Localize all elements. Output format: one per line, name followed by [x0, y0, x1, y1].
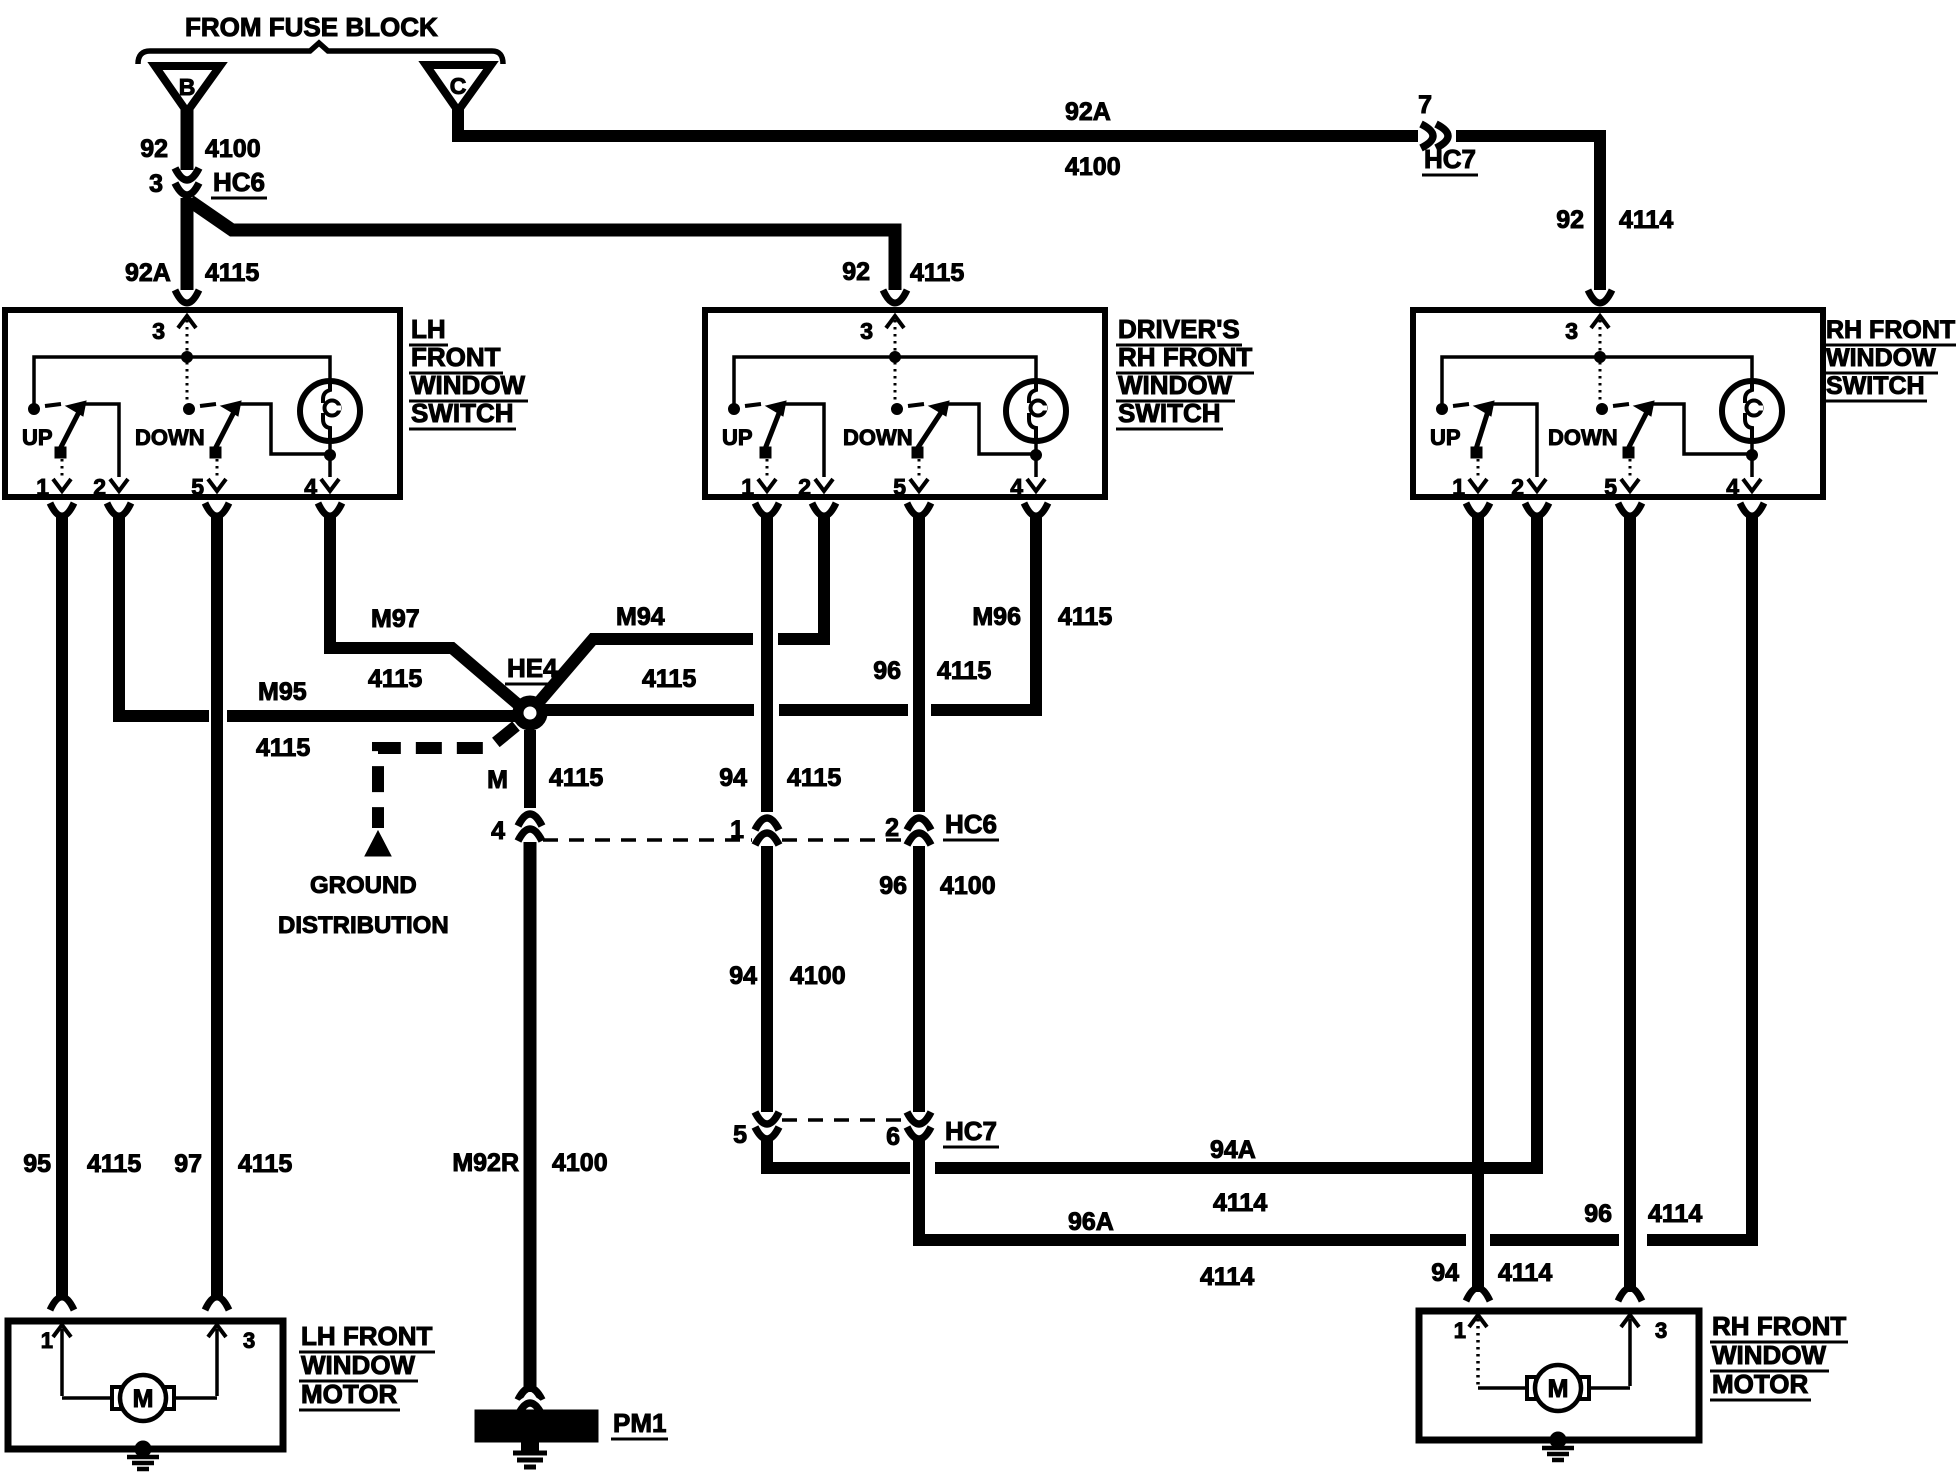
svg-text:M94: M94	[616, 603, 665, 631]
svg-text:GROUND: GROUND	[310, 872, 417, 899]
LH front window switch DOWN switch	[186, 362, 189, 402]
svg-text:1: 1	[36, 474, 49, 500]
wire ground distribution dashed	[378, 726, 516, 828]
svg-text:1: 1	[1452, 474, 1465, 500]
svg-text:4100: 4100	[205, 135, 261, 163]
svg-text:4: 4	[491, 817, 505, 845]
svg-text:3: 3	[243, 1328, 255, 1353]
wire end fork RH pin3	[1588, 290, 1612, 303]
wire M92R 4100 to PM1	[524, 842, 537, 1392]
connector HE4-4	[518, 814, 542, 826]
drivers RH front window switch lamp	[1006, 381, 1066, 441]
svg-text:M97: M97	[371, 605, 420, 633]
drivers RH front window switch pin 5 stub	[907, 503, 931, 516]
wire 97 4115 LH pin5 to motor	[211, 528, 223, 1300]
svg-text:DOWN: DOWN	[1548, 425, 1618, 450]
svg-text:LH: LH	[411, 314, 446, 344]
svg-text:94: 94	[729, 962, 757, 990]
LH front window switch UP switch	[29, 404, 40, 415]
LH front window switch wire top rail	[34, 357, 330, 404]
svg-text:MOTOR: MOTOR	[301, 1379, 398, 1409]
svg-text:1: 1	[741, 474, 754, 500]
drivers RH front window switch wire top rail	[734, 357, 1036, 404]
wire M 4115 ground feed	[524, 730, 536, 808]
RH front window switch wire DOWN to lamp	[1651, 404, 1747, 454]
svg-text:5: 5	[893, 474, 906, 500]
RH front window switch node pin3 junction	[1595, 352, 1606, 363]
wire M95 4115	[119, 528, 521, 716]
svg-text:92: 92	[1556, 206, 1584, 234]
LH front window switch node pin3 junction	[182, 352, 193, 363]
svg-text:2: 2	[93, 474, 106, 500]
drivers RH front window switch pin 2 stub	[812, 503, 836, 516]
wire M97 4115	[330, 528, 521, 707]
wire end fork RH motor pin3	[1618, 1288, 1642, 1301]
svg-text:4115: 4115	[1058, 603, 1112, 631]
wire 96A 4114	[919, 528, 1752, 1240]
wire end fork LH motor pin1	[50, 1297, 74, 1310]
svg-text:2: 2	[798, 474, 811, 500]
wire 94 4114 RH pin1 to motor	[1472, 528, 1484, 1292]
LH front window switch pin 2 arrow	[110, 479, 128, 491]
svg-text:4114: 4114	[1498, 1259, 1552, 1287]
wire 96 4100	[913, 846, 925, 1112]
RH front window switch pin 1 arrow	[1469, 479, 1487, 491]
wire 96 4114 RH pin5 to motor	[1624, 528, 1636, 1292]
drivers RH front window switch pin 1 arrow	[758, 479, 776, 491]
RH front window switch lamp	[1722, 381, 1782, 441]
RH front window switch wire UP to pin2	[1491, 404, 1537, 477]
svg-text:94: 94	[719, 764, 747, 792]
wire end fork RH motor pin1	[1466, 1288, 1490, 1301]
connector HC6 pin 2	[907, 818, 931, 830]
svg-text:RH FRONT: RH FRONT	[1118, 342, 1252, 372]
wire 94 4115	[761, 528, 773, 812]
drivers RH front window switch UP switch	[729, 404, 740, 415]
svg-text:M96: M96	[972, 603, 1021, 631]
RH front window switch pin 1 stub	[1466, 503, 1490, 516]
wire M96 4115	[545, 528, 1036, 710]
wire 92A 4100 from C	[458, 108, 1600, 290]
svg-text:3: 3	[1565, 318, 1578, 344]
RH front window switch box	[1413, 310, 1823, 497]
LH front window motor ground	[135, 1441, 151, 1457]
LH front window switch pin 4 arrow	[321, 479, 339, 491]
connector triangle C	[426, 65, 491, 111]
connector triangle B	[155, 66, 220, 112]
drivers RH front window switch node lamp junction	[1031, 450, 1042, 461]
RH front window switch pin 5 stub	[1618, 503, 1642, 516]
svg-text:DOWN: DOWN	[135, 425, 205, 450]
RH front window motor wire to motor	[1478, 1386, 1528, 1390]
wire 92A 4115 to LH switch	[181, 198, 194, 290]
wire 92 4115 branch to drivers switch	[190, 201, 895, 290]
LH front window motor pin 1 terminal	[53, 1325, 71, 1337]
svg-text:4115: 4115	[642, 665, 696, 693]
LH front window switch pin 5 stub	[205, 503, 229, 516]
svg-text:RH FRONT: RH FRONT	[1712, 1311, 1846, 1341]
RH front window motor box	[1419, 1311, 1699, 1440]
wire 92 4100 from B	[181, 108, 194, 170]
ground distribution arrow	[365, 831, 391, 856]
svg-text:B: B	[179, 74, 196, 100]
svg-text:92: 92	[842, 258, 870, 286]
wire 94A 4114	[767, 528, 1537, 1168]
wire M94 4115	[539, 528, 824, 702]
svg-text:5: 5	[1604, 474, 1617, 500]
svg-text:SWITCH: SWITCH	[1118, 398, 1221, 428]
svg-text:92: 92	[140, 135, 168, 163]
svg-text:WINDOW: WINDOW	[1118, 370, 1233, 400]
svg-text:UP: UP	[1430, 425, 1461, 450]
svg-text:4: 4	[1726, 474, 1739, 500]
RH front window motor motor M	[1527, 1377, 1536, 1399]
svg-text:WINDOW: WINDOW	[411, 370, 526, 400]
drivers RH front window switch wire UP to pin2	[783, 404, 824, 477]
svg-text:96: 96	[873, 657, 901, 685]
LH front window switch box	[5, 310, 400, 497]
svg-text:UP: UP	[22, 425, 53, 450]
drivers RH front window switch pin 3 arrow	[886, 316, 904, 328]
RH front window switch DOWN switch	[1599, 362, 1602, 402]
svg-text:4114: 4114	[1200, 1263, 1254, 1291]
svg-text:WINDOW: WINDOW	[1712, 1340, 1827, 1370]
svg-text:4115: 4115	[238, 1150, 292, 1178]
svg-text:FROM FUSE BLOCK: FROM FUSE BLOCK	[185, 12, 438, 42]
svg-text:5: 5	[733, 1121, 747, 1149]
LH front window motor motor M	[112, 1387, 121, 1409]
LH front window switch pin 2 stub	[107, 503, 131, 516]
svg-text:DOWN: DOWN	[843, 425, 913, 450]
wire end fork LH pin3	[175, 290, 199, 303]
svg-text:4114: 4114	[1648, 1200, 1702, 1228]
svg-text:4114: 4114	[1213, 1189, 1267, 1217]
svg-text:M: M	[1548, 1375, 1569, 1403]
svg-text:1: 1	[41, 1328, 53, 1353]
svg-text:HC6: HC6	[213, 167, 265, 197]
LH front window motor wire to motor	[62, 1396, 113, 1400]
svg-text:4115: 4115	[549, 764, 603, 792]
svg-text:7: 7	[1418, 91, 1432, 119]
svg-text:2: 2	[1511, 474, 1524, 500]
svg-text:DISTRIBUTION: DISTRIBUTION	[278, 912, 449, 939]
RH front window switch wire top rail	[1442, 357, 1752, 404]
svg-text:4100: 4100	[552, 1149, 608, 1177]
svg-text:4100: 4100	[1065, 153, 1121, 181]
svg-text:4115: 4115	[937, 657, 991, 685]
svg-text:3: 3	[1655, 1318, 1667, 1343]
LH front window switch pin 1 stub	[50, 503, 74, 516]
svg-text:1: 1	[1454, 1318, 1466, 1343]
connector HC7 pin 5	[755, 1112, 779, 1124]
svg-text:HC6: HC6	[945, 809, 997, 839]
LH front window switch wire DOWN to lamp	[238, 404, 325, 454]
RH front window switch pin 2 arrow	[1528, 479, 1546, 491]
svg-text:4115: 4115	[205, 259, 259, 287]
svg-text:94: 94	[1431, 1259, 1459, 1287]
LH front window motor pin 3 terminal	[208, 1325, 226, 1337]
svg-text:95: 95	[23, 1150, 51, 1178]
svg-text:3: 3	[149, 170, 163, 198]
svg-text:SWITCH: SWITCH	[411, 398, 514, 428]
svg-text:92A: 92A	[1065, 98, 1111, 126]
svg-text:2: 2	[885, 814, 899, 842]
svg-text:HC7: HC7	[1424, 144, 1476, 174]
RH front window switch pin 4 stub	[1740, 503, 1764, 516]
svg-text:C: C	[450, 73, 467, 99]
drivers RH front window switch pin 5 arrow	[910, 479, 928, 491]
svg-text:96A: 96A	[1068, 1208, 1114, 1236]
svg-text:96: 96	[1584, 1200, 1612, 1228]
LH front window switch pin 3 arrow	[178, 316, 196, 328]
LH front window switch node lamp junction	[325, 450, 336, 461]
svg-text:PM1: PM1	[613, 1408, 666, 1438]
RH front window switch pin 4 arrow	[1743, 479, 1761, 491]
svg-text:4115: 4115	[910, 259, 964, 287]
svg-text:WINDOW: WINDOW	[1826, 344, 1936, 372]
svg-text:SWITCH: SWITCH	[1826, 372, 1925, 400]
wire 94 4100	[761, 846, 773, 1112]
PM1 ground block	[475, 1410, 598, 1442]
svg-text:96: 96	[879, 872, 907, 900]
wire 95 4115 LH pin1 to motor	[56, 528, 68, 1300]
svg-text:DRIVER'S: DRIVER'S	[1118, 314, 1240, 344]
connector HC6 pin 3	[175, 168, 199, 180]
LH front window switch pin 4 stub	[318, 503, 342, 516]
svg-text:97: 97	[174, 1150, 202, 1178]
svg-text:4115: 4115	[256, 734, 310, 762]
svg-text:M92R: M92R	[452, 1149, 519, 1177]
drivers RH front window switch pin 4 arrow	[1027, 479, 1045, 491]
svg-text:6: 6	[886, 1123, 900, 1151]
svg-text:4114: 4114	[1619, 206, 1673, 234]
connector HC7 pin 6	[907, 1112, 931, 1124]
drivers RH front window switch wire DOWN to lamp	[946, 404, 1031, 454]
LH front window switch pin 1 arrow	[53, 479, 71, 491]
RH front window motor pin 3 terminal	[1621, 1315, 1639, 1327]
svg-text:4: 4	[1010, 474, 1023, 500]
svg-text:4: 4	[304, 474, 317, 500]
svg-text:4100: 4100	[940, 872, 996, 900]
wire 96 4115	[913, 528, 925, 812]
svg-text:4115: 4115	[787, 764, 841, 792]
svg-text:HE4: HE4	[507, 653, 558, 683]
connector HC7 inline	[1418, 126, 1456, 146]
svg-text:FRONT: FRONT	[411, 342, 501, 372]
svg-text:5: 5	[191, 474, 204, 500]
svg-text:3: 3	[152, 318, 165, 344]
svg-text:3: 3	[860, 318, 873, 344]
RH front window switch pin 3 arrow	[1591, 316, 1609, 328]
svg-text:MOTOR: MOTOR	[1712, 1369, 1809, 1399]
svg-text:M: M	[487, 766, 508, 794]
RH front window motor pin 1 terminal	[1469, 1315, 1487, 1327]
drivers RH front window switch pin 2 arrow	[815, 479, 833, 491]
node HE4 junction	[513, 696, 547, 730]
svg-text:M95: M95	[258, 678, 307, 706]
svg-text:4115: 4115	[87, 1150, 141, 1178]
connector PM1 top	[518, 1388, 542, 1400]
drivers RH front window switch pin 4 stub	[1024, 503, 1048, 516]
drivers RH front window switch pin 1 stub	[755, 503, 779, 516]
dashed link HC7	[782, 1118, 904, 1122]
svg-text:94A: 94A	[1210, 1136, 1256, 1164]
LH front window switch pin 5 arrow	[208, 479, 226, 491]
RH front window motor ground	[1550, 1432, 1566, 1448]
fuse block bracket	[138, 43, 503, 64]
svg-text:UP: UP	[722, 425, 753, 450]
dashed link HC6	[543, 838, 752, 842]
svg-text:4115: 4115	[368, 665, 422, 693]
LH front window switch lamp	[300, 381, 360, 441]
svg-text:WINDOW: WINDOW	[301, 1350, 416, 1380]
svg-text:LH FRONT: LH FRONT	[301, 1321, 433, 1351]
wire end fork drivers pin3	[883, 290, 907, 303]
svg-text:M: M	[133, 1385, 154, 1413]
svg-text:RH FRONT: RH FRONT	[1826, 316, 1955, 344]
drivers RH front window switch node pin3 junction	[890, 352, 901, 363]
LH front window motor box	[8, 1321, 283, 1449]
RH front window switch pin 2 stub	[1525, 503, 1549, 516]
svg-text:92A: 92A	[125, 259, 171, 287]
connector HC6 pin 1	[755, 818, 779, 830]
wire end fork LH motor pin3	[205, 1297, 229, 1310]
svg-text:HC7: HC7	[945, 1116, 997, 1146]
svg-text:4100: 4100	[790, 962, 846, 990]
RH front window switch pin 5 arrow	[1621, 479, 1639, 491]
drivers RH front window switch DOWN switch	[894, 362, 897, 402]
RH front window switch node lamp junction	[1747, 450, 1758, 461]
drivers RH front window switch box	[705, 310, 1105, 497]
LH front window switch wire UP to pin2	[83, 404, 119, 477]
RH front window switch UP switch	[1437, 404, 1448, 415]
